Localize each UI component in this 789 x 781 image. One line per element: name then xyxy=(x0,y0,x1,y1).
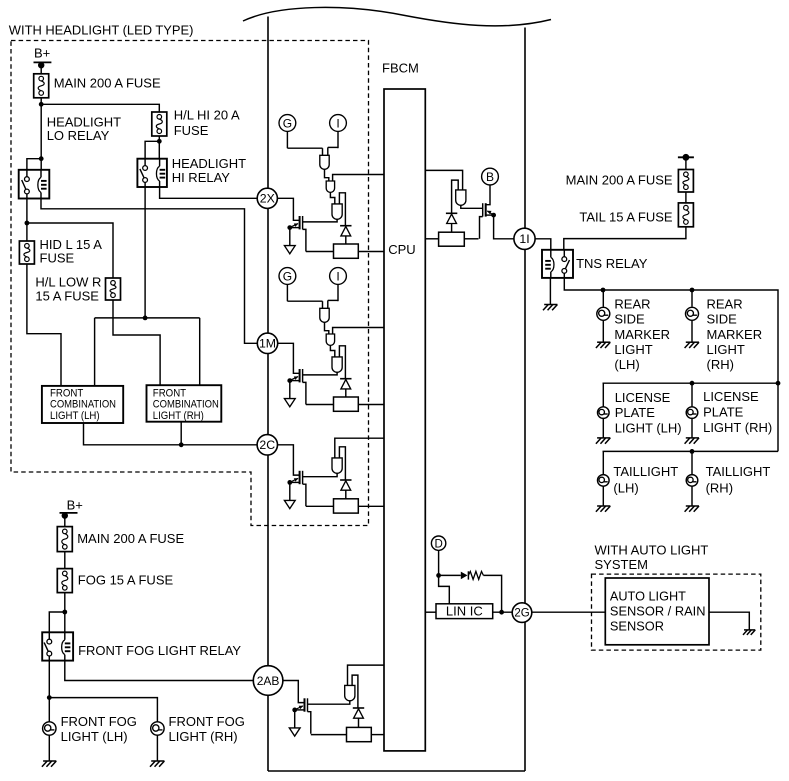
svg-text:TAILLIGHT: TAILLIGHT xyxy=(613,464,678,479)
svg-text:G: G xyxy=(283,116,292,130)
svg-text:MARKER: MARKER xyxy=(707,327,763,342)
svg-text:COMBINATION: COMBINATION xyxy=(50,398,116,410)
svg-text:AUTO LIGHT: AUTO LIGHT xyxy=(610,588,686,603)
svg-text:LIGHT (RH): LIGHT (RH) xyxy=(703,420,772,435)
svg-text:B+: B+ xyxy=(67,497,83,512)
svg-text:SIDE: SIDE xyxy=(614,312,645,327)
svg-text:1M: 1M xyxy=(259,337,276,351)
svg-text:2X: 2X xyxy=(260,192,275,206)
svg-text:REAR: REAR xyxy=(707,296,743,311)
svg-text:SENSOR: SENSOR xyxy=(610,619,664,634)
svg-text:B+: B+ xyxy=(34,46,50,61)
svg-text:SENSOR / RAIN: SENSOR / RAIN xyxy=(610,604,706,619)
svg-text:LO RELAY: LO RELAY xyxy=(47,128,110,143)
svg-text:15 A FUSE: 15 A FUSE xyxy=(35,289,99,304)
svg-text:H/L HI 20 A: H/L HI 20 A xyxy=(174,108,240,123)
svg-text:LIGHT (LH): LIGHT (LH) xyxy=(615,420,682,435)
svg-text:CPU: CPU xyxy=(388,242,415,257)
svg-text:MAIN 200 A FUSE: MAIN 200 A FUSE xyxy=(54,76,161,91)
svg-text:2G: 2G xyxy=(514,608,529,620)
svg-text:HID L 15 A: HID L 15 A xyxy=(40,237,103,252)
svg-text:TAILLIGHT: TAILLIGHT xyxy=(706,464,771,479)
svg-text:SIDE: SIDE xyxy=(707,312,738,327)
svg-text:REAR: REAR xyxy=(614,296,650,311)
svg-text:LICENSE: LICENSE xyxy=(703,389,759,404)
svg-text:LIN IC: LIN IC xyxy=(446,604,483,619)
svg-text:TNS RELAY: TNS RELAY xyxy=(576,256,648,271)
svg-text:WITH AUTO LIGHT: WITH AUTO LIGHT xyxy=(595,542,709,557)
svg-text:FRONT FOG LIGHT RELAY: FRONT FOG LIGHT RELAY xyxy=(78,643,241,658)
svg-text:MAIN 200 A FUSE: MAIN 200 A FUSE xyxy=(566,173,673,188)
svg-text:B: B xyxy=(486,170,494,184)
svg-text:FOG 15 A FUSE: FOG 15 A FUSE xyxy=(78,573,174,588)
svg-text:I: I xyxy=(336,269,339,283)
svg-text:LIGHT (LH): LIGHT (LH) xyxy=(50,410,100,422)
svg-text:HEADLIGHT: HEADLIGHT xyxy=(172,156,246,171)
svg-text:2C: 2C xyxy=(259,438,275,452)
svg-text:COMBINATION: COMBINATION xyxy=(153,398,219,410)
svg-text:D: D xyxy=(434,538,442,550)
svg-text:LIGHT: LIGHT xyxy=(614,342,652,357)
svg-text:TAIL 15 A FUSE: TAIL 15 A FUSE xyxy=(579,209,673,224)
svg-text:FUSE: FUSE xyxy=(174,123,209,138)
svg-text:G: G xyxy=(283,269,292,283)
svg-text:LIGHT (RH): LIGHT (RH) xyxy=(169,729,238,744)
svg-text:FUSE: FUSE xyxy=(40,251,75,266)
svg-text:2AB: 2AB xyxy=(257,674,280,688)
svg-text:I: I xyxy=(336,116,339,130)
svg-text:SYSTEM: SYSTEM xyxy=(595,557,648,572)
svg-text:MAIN 200 A FUSE: MAIN 200 A FUSE xyxy=(77,531,184,546)
svg-text:LIGHT (RH): LIGHT (RH) xyxy=(153,410,204,422)
svg-text:(LH): (LH) xyxy=(613,480,638,495)
svg-text:(LH): (LH) xyxy=(614,357,639,372)
svg-text:PLATE: PLATE xyxy=(615,405,656,420)
svg-text:WITH HEADLIGHT (LED TYPE): WITH HEADLIGHT (LED TYPE) xyxy=(9,23,194,38)
svg-text:1I: 1I xyxy=(519,232,529,246)
svg-text:MARKER: MARKER xyxy=(614,327,670,342)
svg-text:FBCM: FBCM xyxy=(382,61,419,76)
svg-text:PLATE: PLATE xyxy=(703,405,744,420)
svg-text:(RH): (RH) xyxy=(706,480,733,495)
svg-text:LICENSE: LICENSE xyxy=(615,390,671,405)
svg-text:HI RELAY: HI RELAY xyxy=(172,170,231,185)
svg-text:(RH): (RH) xyxy=(707,357,734,372)
svg-text:H/L LOW R: H/L LOW R xyxy=(35,275,101,290)
svg-text:LIGHT (LH): LIGHT (LH) xyxy=(61,729,128,744)
svg-text:FRONT FOG: FRONT FOG xyxy=(61,714,137,729)
svg-text:FRONT FOG: FRONT FOG xyxy=(169,714,245,729)
svg-text:LIGHT: LIGHT xyxy=(707,342,745,357)
